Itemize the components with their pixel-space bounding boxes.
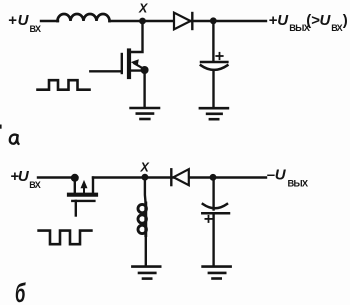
- gate wire of VT1: [90, 70, 122, 72]
- wire input a: [41, 20, 58, 22]
- svg-text:б: б: [15, 278, 26, 305]
- ground (L2): [132, 267, 160, 279]
- plus sign of C1: [216, 53, 222, 59]
- scan artifact left edge: [0, 125, 2, 129]
- wire C2 to ground: [212, 213, 214, 265]
- svg-text:X: X: [140, 161, 150, 175]
- capacitor C1 (polarized): [201, 62, 228, 70]
- wire from L1 to output node a: [110, 20, 267, 22]
- wire VT1 source to ground: [143, 70, 145, 108]
- label а (sub-figure a): [10, 135, 19, 144]
- wire output node to capacitor C1: [212, 21, 214, 61]
- gate plate of VT2: [72, 200, 94, 202]
- diode VD2 (pointing left): [171, 169, 189, 185]
- svg-text:–UВЫХ: –UВЫХ: [267, 167, 309, 189]
- wire C1 to ground: [212, 70, 214, 108]
- svg-text:X: X: [138, 2, 148, 16]
- wire node X down to inductor L2: [144, 177, 147, 203]
- ground (C1, circuit a): [200, 108, 228, 119]
- svg-text:+UВХ: +UВХ: [11, 168, 41, 190]
- ground (VT1 source): [131, 108, 159, 119]
- svg-text:+UВХ: +UВХ: [8, 12, 41, 34]
- wire input b to VT2 source: [38, 176, 75, 178]
- transistor VT2 (p-channel MOSFET, series): [69, 174, 96, 195]
- plus sign of C2: [205, 216, 211, 222]
- transistor VT1 drain wire from node X: [130, 21, 143, 52]
- svg-text:+UВЫХ(>UВХ): +UВЫХ(>UВХ): [269, 12, 348, 33]
- wire L2 to ground: [145, 235, 147, 266]
- capacitor C2 (polarized, inverted): [202, 204, 229, 213]
- pulse waveform (gate drive, circuit b, inverted): [39, 231, 92, 245]
- wire VT2 drain to output node b: [93, 176, 266, 178]
- junction node (diode/cap/output, circuit b): [210, 174, 217, 181]
- gate wire of VT2: [75, 201, 77, 216]
- junction node (diode/cap/output, circuit a): [210, 17, 217, 24]
- node X (circuit b): [142, 174, 149, 181]
- inductor L1: [58, 14, 110, 21]
- diode VD1: [174, 13, 192, 30]
- wire output node b to capacitor C2: [212, 177, 214, 209]
- transistor VT1 (n-channel MOSFET): [122, 51, 149, 78]
- ground (C2, circuit b): [203, 267, 231, 279]
- inductor L2 (vertical): [138, 203, 146, 236]
- pulse waveform (gate drive, circuit a): [38, 80, 90, 90]
- node X (circuit a): [139, 18, 146, 25]
